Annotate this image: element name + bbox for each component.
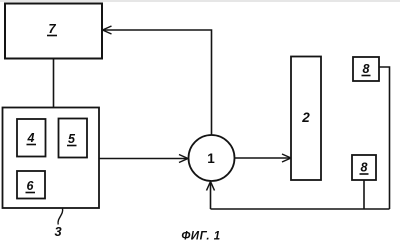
block 4	[17, 119, 46, 157]
arrowhead into 1	[179, 155, 188, 163]
arrowhead into 7	[103, 26, 112, 34]
svg-text:5: 5	[68, 132, 76, 146]
wire 7 to 3	[53, 59, 55, 108]
wire 8 top to right rail	[379, 67, 390, 209]
svg-text:1: 1	[207, 151, 215, 166]
block 2	[291, 57, 321, 181]
block 8 top	[353, 57, 379, 81]
wire 1 to 2	[235, 157, 291, 159]
svg-text:6: 6	[27, 179, 35, 193]
svg-text:8: 8	[363, 62, 370, 76]
wire 3 to 1	[99, 158, 187, 160]
block 3 (container)	[3, 108, 100, 209]
svg-text:3: 3	[54, 224, 61, 239]
svg-text:ФИГ. 1: ФИГ. 1	[181, 231, 220, 240]
arrowhead into 2	[282, 154, 291, 162]
wire 1 up and left to 7	[103, 30, 212, 135]
svg-text:2: 2	[301, 110, 310, 125]
scan edge artifact top	[0, 0, 400, 2]
block 8 bottom	[352, 155, 376, 180]
block 6	[17, 171, 45, 199]
wire up into 1	[210, 182, 212, 209]
summator circle 1	[189, 135, 235, 181]
arrowhead into 1 bottom	[207, 182, 215, 191]
svg-text:8: 8	[361, 161, 368, 175]
bottom feedback wire	[211, 208, 390, 210]
block 7	[5, 4, 102, 59]
svg-text:4: 4	[27, 131, 35, 145]
svg-text:7: 7	[48, 21, 56, 36]
wire 8 bottom down	[363, 180, 365, 209]
leader line for 3	[58, 209, 63, 225]
block 5	[59, 119, 88, 158]
